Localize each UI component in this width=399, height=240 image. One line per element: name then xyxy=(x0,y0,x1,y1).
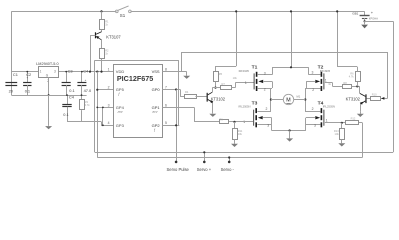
svg-text:2: 2 xyxy=(108,85,110,89)
svg-text:2: 2 xyxy=(264,87,266,91)
svg-text:IRL2505N: IRL2505N xyxy=(238,105,250,109)
svg-text:1: 1 xyxy=(243,120,245,124)
svg-text:2: 2 xyxy=(312,107,314,111)
svg-text:1: 1 xyxy=(40,70,42,74)
svg-text:Servo +: Servo + xyxy=(197,167,212,172)
svg-text:VSS: VSS xyxy=(152,69,160,74)
svg-text:2: 2 xyxy=(266,107,268,111)
svg-text:KT3102: KT3102 xyxy=(346,96,361,101)
svg-text:3: 3 xyxy=(108,103,110,107)
svg-text:M1: M1 xyxy=(297,95,301,99)
svg-text:IRF4905: IRF4905 xyxy=(320,69,331,73)
svg-text:6: 6 xyxy=(165,103,167,107)
svg-text:0.1: 0.1 xyxy=(25,88,30,93)
svg-text:1: 1 xyxy=(245,81,247,85)
svg-text:R9: R9 xyxy=(219,118,223,122)
svg-text:C4: C4 xyxy=(83,68,89,73)
svg-text:KT3102: KT3102 xyxy=(211,96,226,101)
svg-text:T1: T1 xyxy=(252,64,258,70)
svg-text:3: 3 xyxy=(314,124,316,128)
svg-text:ЛУУ: ЛУУ xyxy=(117,110,124,114)
svg-text:GP4: GP4 xyxy=(116,105,125,110)
svg-text:0.1: 0.1 xyxy=(63,112,68,117)
svg-text:C1: C1 xyxy=(13,72,18,77)
svg-text:GP0: GP0 xyxy=(152,87,161,92)
svg-text:IRL2505N: IRL2505N xyxy=(323,105,335,109)
svg-text:R7: R7 xyxy=(222,82,226,86)
svg-text:R8: R8 xyxy=(343,81,347,85)
svg-text:M: M xyxy=(286,98,290,104)
svg-text:IRF4905: IRF4905 xyxy=(239,69,250,73)
svg-text:C4: C4 xyxy=(69,95,75,100)
svg-text:GP1: GP1 xyxy=(152,105,161,110)
svg-text:КРОНА: КРОНА xyxy=(369,16,378,20)
svg-text:3: 3 xyxy=(312,71,314,75)
svg-text:47.0: 47.0 xyxy=(84,88,92,93)
svg-text:R5: R5 xyxy=(219,72,223,76)
svg-text:R10: R10 xyxy=(372,92,377,96)
svg-text:3: 3 xyxy=(267,124,269,128)
svg-text:4.7k: 4.7k xyxy=(349,75,355,79)
svg-text:LM2940T-5.0: LM2940T-5.0 xyxy=(36,62,58,66)
svg-text:3: 3 xyxy=(54,70,56,74)
svg-text:GB1: GB1 xyxy=(352,11,358,15)
svg-text:PIC12F675: PIC12F675 xyxy=(117,74,153,83)
svg-text:T3: T3 xyxy=(252,100,258,106)
svg-text:10k: 10k xyxy=(238,132,243,136)
svg-text:GP3: GP3 xyxy=(116,123,125,128)
svg-text:7: 7 xyxy=(165,85,167,89)
svg-text:ƒ: ƒ xyxy=(118,92,120,96)
svg-text:+: + xyxy=(85,78,87,82)
svg-text:Servo -: Servo - xyxy=(221,167,235,172)
svg-text:Servo Pulse: Servo Pulse xyxy=(167,167,190,172)
svg-text:10k: 10k xyxy=(335,132,340,136)
svg-text:4: 4 xyxy=(108,121,110,125)
svg-text:+: + xyxy=(27,76,29,80)
svg-text:ЛУУ: ЛУУ xyxy=(151,110,158,114)
svg-text:S1: S1 xyxy=(120,13,126,18)
svg-text:3: 3 xyxy=(264,71,266,75)
svg-text:1: 1 xyxy=(325,79,327,83)
svg-text:8: 8 xyxy=(165,68,167,72)
svg-text:0.1: 0.1 xyxy=(69,88,74,93)
svg-text:VDD: VDD xyxy=(116,69,125,74)
svg-text:KT3107: KT3107 xyxy=(106,35,121,40)
svg-text:5: 5 xyxy=(165,121,167,125)
svg-text:C3: C3 xyxy=(68,68,73,73)
svg-text:R12: R12 xyxy=(351,117,356,121)
svg-text:2: 2 xyxy=(312,88,314,92)
svg-text:10k: 10k xyxy=(233,76,238,80)
svg-text:1: 1 xyxy=(108,68,110,72)
svg-text:4.7k: 4.7k xyxy=(85,103,91,107)
svg-text:R4: R4 xyxy=(185,90,189,94)
svg-text:ƒ: ƒ xyxy=(154,128,156,132)
